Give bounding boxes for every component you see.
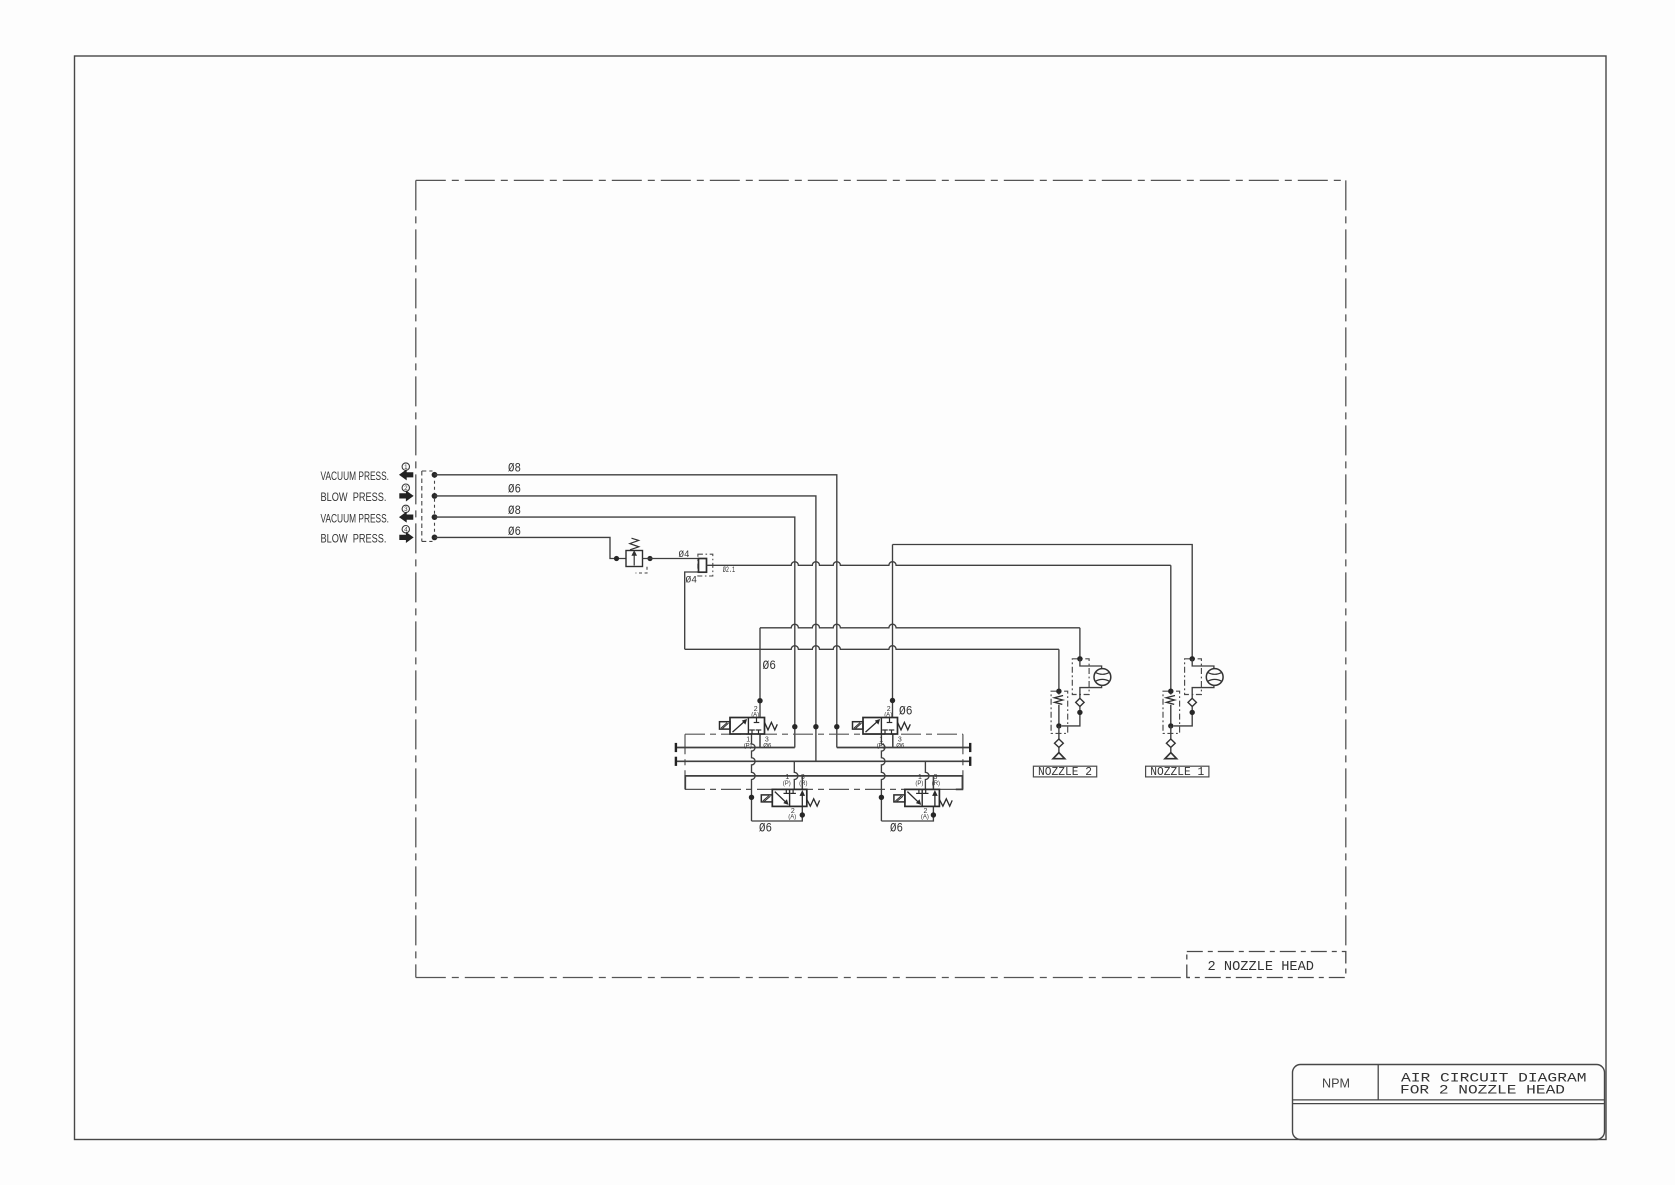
- svg-text:Ø6: Ø6: [890, 822, 903, 836]
- svg-text:(A): (A): [788, 815, 796, 821]
- svg-text:Ø6: Ø6: [508, 483, 521, 497]
- svg-text:Ø4: Ø4: [679, 549, 690, 561]
- svg-text:BLOW PRESS.: BLOW PRESS.: [321, 532, 387, 546]
- svg-text:NOZZLE 1: NOZZLE 1: [1150, 765, 1204, 779]
- svg-text:Ø6: Ø6: [508, 525, 521, 539]
- svg-text:(P): (P): [915, 781, 923, 787]
- svg-text:NOZZLE 2: NOZZLE 2: [1038, 765, 1092, 779]
- svg-text:FOR 2 NOZZLE HEAD: FOR 2 NOZZLE HEAD: [1400, 1083, 1565, 1098]
- svg-text:VACUUM PRESS.: VACUUM PRESS.: [321, 469, 390, 483]
- svg-text:(P): (P): [877, 744, 885, 750]
- svg-text:2 NOZZLE HEAD: 2 NOZZLE HEAD: [1208, 960, 1315, 975]
- svg-text:(A): (A): [751, 712, 759, 718]
- svg-text:(P): (P): [744, 744, 752, 750]
- svg-text:VACUUM PRESS.: VACUUM PRESS.: [321, 511, 390, 525]
- svg-text:(P): (P): [783, 781, 791, 787]
- svg-text:NPM: NPM: [1322, 1076, 1350, 1091]
- svg-text:(R): (R): [799, 781, 807, 787]
- svg-text:Ø4: Ø4: [686, 574, 698, 586]
- svg-text:Ø6: Ø6: [763, 659, 777, 673]
- svg-text:(A): (A): [884, 712, 892, 718]
- svg-text:Ø8: Ø8: [508, 504, 521, 518]
- svg-text:Ø6: Ø6: [899, 705, 913, 719]
- svg-text:Ø6: Ø6: [896, 744, 905, 750]
- svg-text:(A): (A): [921, 815, 929, 821]
- svg-text:BLOW PRESS.: BLOW PRESS.: [321, 490, 387, 504]
- svg-text:Ø6: Ø6: [763, 744, 772, 750]
- svg-text:(R): (R): [932, 781, 940, 787]
- svg-text:Ø6: Ø6: [759, 822, 772, 836]
- svg-text:Ø8: Ø8: [508, 461, 521, 475]
- svg-text:Ø2.1: Ø2.1: [723, 566, 735, 575]
